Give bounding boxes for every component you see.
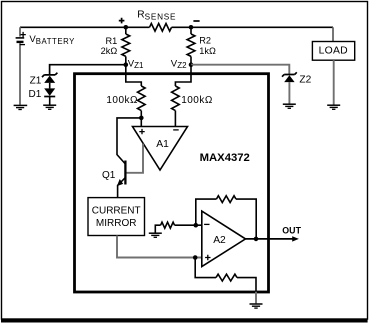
MAX4372 IC box	[75, 74, 269, 292]
ground (Z2)	[283, 104, 296, 108]
zener Z2	[282, 72, 312, 103]
node A2- dot	[194, 223, 199, 228]
ground (A2 bottom)	[250, 304, 263, 308]
svg-text:R2: R2	[199, 36, 211, 46]
resistor Rin (A2 minus)	[161, 222, 175, 228]
node junction dot	[139, 116, 144, 121]
svg-text:VZ1: VZ1	[128, 58, 144, 70]
ground (A2 minus input)	[149, 233, 162, 237]
svg-text:CURRENT: CURRENT	[92, 206, 141, 217]
svg-text:100kΩ: 100kΩ	[181, 95, 213, 106]
svg-text:R1: R1	[105, 36, 117, 46]
resistor R2	[190, 27, 192, 34]
node VZ2	[189, 62, 194, 67]
op-amp A1	[133, 127, 188, 171]
resistor 100k left	[138, 86, 146, 111]
diode D1	[29, 88, 56, 104]
wire top rail	[20, 26, 333, 28]
svg-text:Z2: Z2	[299, 75, 311, 86]
wire Rin to A2-	[175, 224, 202, 226]
resistor RSENSE	[150, 24, 172, 32]
zener Z1	[30, 73, 58, 89]
wire VZ1 to Z1	[50, 65, 126, 75]
svg-text:RSENSE: RSENSE	[137, 10, 176, 22]
transistor Q1	[102, 118, 141, 198]
feedback resistor loop	[196, 199, 217, 225]
wire 100k left to A1+	[140, 111, 142, 127]
svg-text:VZ2: VZ2	[171, 58, 187, 70]
bottom rule	[1, 319, 368, 323]
ground (Z1/D1)	[43, 105, 56, 109]
ground (battery)	[14, 105, 28, 109]
svg-text:Q1: Q1	[102, 170, 116, 181]
svg-text:2kΩ: 2kΩ	[101, 46, 118, 56]
node VZ1 top dot	[124, 25, 129, 30]
wire to LOAD	[332, 27, 334, 41]
svg-text:1kΩ: 1kΩ	[199, 46, 216, 56]
svg-text:OUT: OUT	[282, 226, 301, 236]
svg-text:VBATTERY: VBATTERY	[29, 34, 75, 46]
wire ground to Rin	[155, 225, 160, 232]
minus label at RS-	[193, 20, 199, 22]
svg-text:100kΩ: 100kΩ	[106, 95, 138, 106]
wire 100k right to A1-	[174, 111, 176, 127]
svg-text:A1: A1	[156, 139, 169, 150]
current mirror box	[88, 198, 145, 236]
ground (LOAD)	[327, 105, 340, 109]
wire VZ2 to 100k right	[175, 65, 191, 86]
plus label at RS+	[119, 18, 125, 24]
bottom gain resistor to ground	[195, 258, 216, 278]
battery VBATTERY	[16, 27, 76, 105]
node A2+ dot	[193, 255, 198, 260]
svg-text:MAX4372: MAX4372	[200, 152, 250, 164]
wire VZ2 to Z2	[191, 65, 289, 74]
wire current mirror to A2+	[117, 236, 202, 258]
wire LOAD to ground	[333, 60, 335, 104]
svg-text:Z1: Z1	[30, 75, 42, 86]
op-amp A2	[202, 211, 246, 267]
wire A1 out to Q1 base	[126, 144, 143, 173]
svg-text:D1: D1	[29, 89, 42, 100]
wire VZ1 to 100k left	[126, 65, 142, 86]
output wire and arrow	[246, 238, 293, 240]
resistor R1	[125, 27, 127, 34]
node VZ1	[124, 62, 129, 67]
node VZ2 top dot	[189, 25, 194, 30]
resistor 100k right	[172, 86, 180, 111]
svg-text:MIRROR: MIRROR	[96, 218, 137, 229]
svg-text:A2: A2	[213, 235, 226, 246]
LOAD box	[312, 42, 354, 61]
svg-text:LOAD: LOAD	[319, 46, 348, 57]
